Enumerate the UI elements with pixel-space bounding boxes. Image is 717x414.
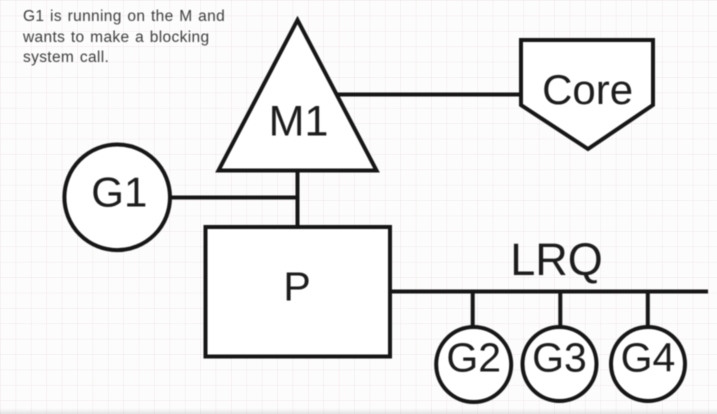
svg-text:G1: G1 [91, 169, 147, 216]
circle G1 [64, 145, 170, 251]
svg-text:Core: Core [542, 66, 633, 113]
wire: drop to G2 [471, 292, 475, 329]
wire: triangle M1 to rect P (vertical) [296, 170, 300, 229]
svg-text:G3: G3 [532, 335, 587, 381]
wire: LRQ run queue horizontal line [388, 290, 708, 294]
caption text [23, 7, 225, 68]
triangle M1 [219, 20, 377, 171]
wire: triangle M1 to Core [332, 93, 524, 97]
circle G3 [523, 327, 597, 401]
svg-text:G4: G4 [621, 335, 676, 381]
rect P [206, 227, 391, 357]
wire: drop to G3 [558, 292, 562, 329]
svg-text:M1: M1 [269, 98, 329, 146]
wire: G1 to vertical connector [168, 196, 299, 200]
svg-text:P: P [283, 264, 310, 310]
svg-text:LRQ: LRQ [510, 234, 603, 285]
circle G2 [436, 327, 511, 402]
svg-text:G2: G2 [446, 335, 501, 381]
wire: drop to G4 [646, 292, 650, 329]
circle G4 [611, 327, 685, 401]
bottom edge shade [0, 408, 717, 414]
pentagon Core [521, 40, 653, 149]
